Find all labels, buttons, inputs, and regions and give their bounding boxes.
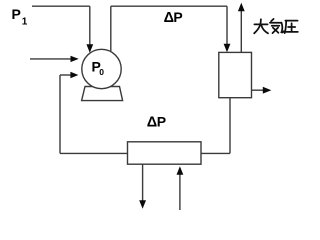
arrowhead recirculation bbox=[70, 72, 78, 78]
pump circle P0 bbox=[82, 49, 121, 88]
label 大気圧 (atmospheric pressure) drawn as strokes bbox=[254, 19, 298, 33]
arrowhead vent up bbox=[238, 3, 245, 12]
orifice box (bottom) bbox=[128, 142, 202, 164]
wire: vertical up on left bbox=[59, 75, 61, 153]
kanji 気 bbox=[270, 19, 284, 33]
wire: vertical down into pump with arrow bbox=[89, 6, 91, 45]
wire: top-right horizontal to separator bbox=[111, 5, 227, 7]
arrowhead drain down bbox=[139, 200, 146, 209]
kanji 大 bbox=[254, 19, 268, 33]
svg-text:P: P bbox=[12, 6, 21, 22]
svg-text:0: 0 bbox=[99, 67, 104, 77]
pump base trapezoid bbox=[82, 87, 123, 101]
wire: orifice left outlet horizontal bbox=[60, 152, 128, 154]
svg-text:Δ: Δ bbox=[147, 114, 157, 130]
inlet arrow up into orifice bbox=[179, 174, 181, 210]
right outlet arrow from separator bbox=[252, 89, 265, 91]
wire: top-left horizontal from P1 bbox=[32, 5, 90, 7]
separator box bbox=[219, 52, 252, 97]
wire: horizontal into orifice right side bbox=[201, 152, 230, 154]
arrowhead inlet up bbox=[177, 166, 184, 175]
arrowhead into separator top bbox=[224, 44, 231, 53]
arrowhead feed bbox=[71, 56, 79, 62]
vent line up from separator bbox=[240, 10, 242, 52]
drain arrow down from orifice bbox=[142, 164, 144, 201]
wire: separator bottom outlet down bbox=[229, 98, 231, 154]
kanji 圧 bbox=[285, 21, 298, 33]
svg-text:1: 1 bbox=[22, 17, 28, 28]
wire: vertical down into separator box bbox=[226, 6, 228, 45]
feed arrow into pump left bbox=[30, 58, 71, 60]
arrowhead right outlet bbox=[263, 87, 272, 94]
svg-text:P: P bbox=[173, 9, 182, 25]
svg-text:P: P bbox=[157, 113, 166, 129]
wire: recirculation into pump with arrow bbox=[60, 74, 71, 76]
arrowhead into pump top bbox=[86, 44, 93, 53]
wire: pump outlet vertical up bbox=[110, 6, 112, 51]
